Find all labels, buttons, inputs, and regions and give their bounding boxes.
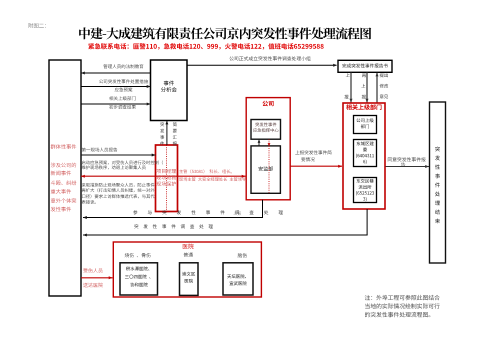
label 脑伤 [238, 253, 247, 257]
arrow 相关上级部门 to 处理结束 [386, 166, 430, 168]
red box 医院 [113, 242, 261, 297]
wire 突发性事件调查处理 from 相关上级部门 bottom [366, 209, 368, 235]
red text 项目经理 现场抢救 现场保护 [156, 169, 176, 174]
text block 启动应急预案 [82, 160, 163, 164]
wire red dotted 指挥中心 to 安监部 down [268, 139, 270, 193]
red item 涉及公司的新闻事件 [51, 163, 76, 168]
red item 群体性事件 [51, 144, 77, 149]
wire 再上报 line down to 相关上级部门 [366, 72, 368, 102]
faint label 上报 [233, 211, 241, 215]
red box 公司 [246, 98, 290, 200]
box 事件分析会 [151, 60, 188, 121]
title 中建-大成建筑有限责任公司京内突发性事件处理流程图 [79, 27, 371, 39]
wire 参与突发性事件调查处理 from 公司 bottom [262, 200, 264, 218]
arrow 公司突发性事件处置措施应急预案 (to 事件分析会) [81, 86, 151, 88]
red arrow 公司 to 相关上级部门 [290, 165, 342, 167]
label 上报突发性事件简要情况 [295, 150, 331, 154]
left tall box 突发事件类型 [49, 60, 81, 296]
red box 项目经理部 [156, 145, 178, 212]
tall box 突发性事件处理结束 [430, 102, 446, 263]
red item 意外个体突发性事件 [51, 198, 76, 203]
box 天坛医院宣武医院 [223, 263, 253, 295]
red emergency phone subtitle [88, 43, 323, 49]
arrow 公司正式成立突发性事件调查处理小组 (事件分析会 to 报告书) [187, 64, 337, 66]
label 烧伤骨伤 [125, 253, 151, 257]
red label 主管科长组长 [179, 169, 232, 173]
red arrow 受伤人员送达医院 [81, 277, 113, 279]
arrow 管理人员的法制教育 (to left box) [81, 72, 151, 74]
wire black arrow up 安监部 to 指挥中心 [258, 140, 260, 146]
box 公司上级部门 [354, 116, 377, 134]
red horizontal arrow both ways 项目经理部 row [81, 175, 246, 177]
label 同意突发性事件报告 [388, 157, 426, 161]
label 第一现场人员报告 [82, 148, 118, 152]
arrow 相关上级部门初步调查结果 (to 事件分析会) [81, 103, 151, 105]
box 东城区建委 [354, 140, 377, 167]
box 安监部 [251, 146, 280, 193]
box 崇文区医院 [180, 263, 199, 296]
caption 附图二 [28, 23, 45, 28]
arrow 第一现场人员报告 to 项目经理部 [81, 154, 156, 156]
wire 突发事件简要汇报 vertical [166, 121, 168, 145]
red box 相关上级部门 [343, 103, 385, 209]
wire 提出修改意见 line up to 报告书 [376, 73, 378, 103]
red label 现场主管 大安全经理处长 主管领导 [179, 177, 246, 181]
red dotted centerline 项目经理部 [166, 145, 168, 212]
box 积水潭医院 [120, 263, 158, 295]
note 注外埠工程可参照此图 [365, 295, 440, 300]
text block 采取措施防止现场事态扩大 [82, 183, 155, 187]
box 完成突发性事件报告书 [338, 60, 392, 72]
red item 斗殴纠纷重大事件 [51, 180, 77, 185]
box 突发性事件应急指挥中心 [251, 120, 281, 140]
wire 上报 line down to 相关上级部门 [350, 72, 352, 102]
box 东交民巷派出所 [354, 178, 377, 203]
